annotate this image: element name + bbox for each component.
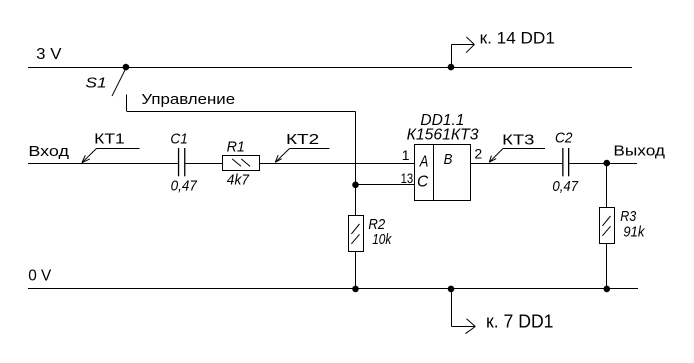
svg-text:91k: 91k (623, 224, 646, 241)
svg-text:КТ2: КТ2 (286, 131, 319, 148)
svg-text:Выход: Выход (613, 143, 665, 160)
svg-text:0,47: 0,47 (171, 178, 198, 195)
svg-text:C: C (417, 173, 429, 190)
svg-text:Вход: Вход (28, 143, 69, 160)
svg-text:R3: R3 (620, 208, 637, 225)
svg-text:B: B (444, 151, 453, 168)
svg-text:C1: C1 (170, 131, 187, 148)
svg-text:3 V: 3 V (36, 46, 62, 63)
svg-text:10k: 10k (372, 231, 392, 248)
svg-text:к. 14 DD1: к. 14 DD1 (480, 29, 555, 48)
svg-text:0 V: 0 V (28, 267, 51, 284)
svg-text:4k7: 4k7 (227, 171, 250, 188)
svg-text:13: 13 (401, 170, 414, 186)
svg-text:C2: C2 (555, 130, 573, 147)
svg-text:КТ3: КТ3 (502, 132, 534, 149)
svg-text:S1: S1 (85, 75, 106, 92)
svg-text:0,47: 0,47 (552, 178, 578, 195)
svg-text:К1561КТ3: К1561КТ3 (407, 126, 479, 143)
svg-text:Управление: Управление (141, 91, 235, 108)
svg-text:к. 7 DD1: к. 7 DD1 (486, 312, 554, 332)
svg-text:2: 2 (474, 146, 482, 162)
svg-text:КТ1: КТ1 (94, 131, 125, 148)
svg-text:R1: R1 (227, 139, 245, 156)
svg-text:1: 1 (402, 147, 410, 163)
svg-text:A: A (419, 153, 428, 170)
